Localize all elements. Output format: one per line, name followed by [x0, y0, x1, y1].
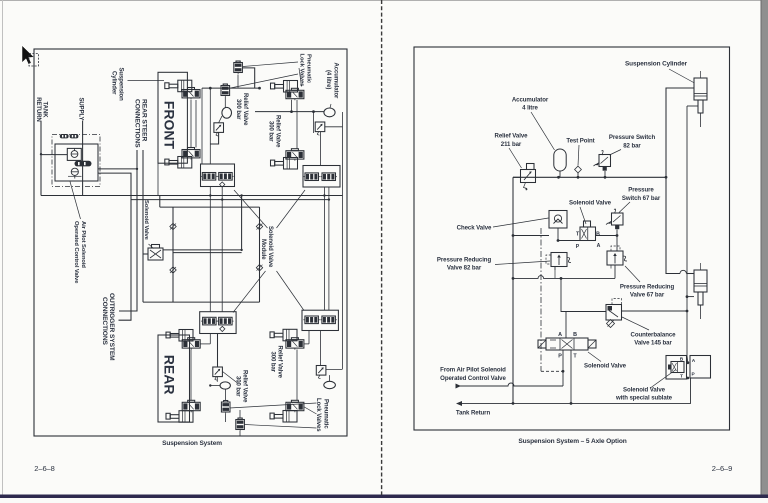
accumulator 4 litre symbol: [554, 149, 566, 171]
svg-text:SUPPLY: SUPPLY: [77, 98, 83, 121]
pneumatic lock valve rear-left-bottom: [182, 402, 200, 410]
leader prv67: [625, 266, 640, 282]
wire: counterbalance out to cylinder line: [622, 310, 688, 312]
wire: v210 front: [209, 88, 211, 164]
svg-text:FRONT: FRONT: [162, 101, 178, 150]
wire: rear-right lock link: [304, 343, 309, 345]
accumulator rear-right: [324, 381, 336, 388]
window top edge line: [0, 0, 768, 2]
subplate inner valve: [671, 362, 684, 373]
wire: v324 modules: [323, 187, 325, 311]
wire: rail to cylinder upper: [666, 88, 694, 177]
leader module label up-left: [234, 190, 268, 228]
wire: P line: [562, 350, 564, 386]
solenoid valve main symbol: [546, 338, 588, 350]
suspension cylinder upper: [694, 78, 707, 100]
svg-text:Switch 67 bar: Switch 67 bar: [622, 195, 661, 202]
REAR manifold box: [158, 335, 190, 422]
wire: control valve to bundle lower: [98, 173, 132, 320]
svg-text:Check Valve: Check Valve: [457, 225, 492, 232]
solenoid wing right: [588, 340, 596, 348]
pneumatic lock valve rear-left-top: [182, 340, 200, 348]
leader relief 211: [509, 148, 522, 168]
junction tank line: [40, 153, 42, 155]
leader ps82: [610, 150, 622, 156]
svg-text:A: A: [597, 243, 601, 249]
svg-text:2–6–9: 2–6–9: [712, 464, 732, 473]
svg-text:Relief Valve: Relief Valve: [275, 115, 281, 148]
leader counterbalance: [622, 317, 649, 330]
leader Pneumatic Lock Valves to FR lock valve: [299, 68, 302, 87]
wire: T line: [570, 350, 572, 403]
control valve pilot sub-box: [67, 148, 81, 160]
wire: FRONT box feed down to rail: [157, 163, 159, 195]
module fr spool A: [305, 173, 319, 181]
wire: front-left internal drop: [190, 100, 192, 148]
pneumatic lock valve front-right-bottom: [286, 151, 304, 159]
junction rail1/v241: [240, 194, 242, 196]
wire: solenoid valve to bundle: [143, 253, 149, 255]
svg-text:300 bar: 300 bar: [235, 376, 241, 397]
svg-text:2–6–8: 2–6–8: [34, 464, 54, 473]
wire: accumulator drop: [559, 171, 561, 177]
svg-text:Solenoid Valve: Solenoid Valve: [569, 200, 612, 207]
wire: prv82 drop: [554, 267, 556, 279]
wire: right vertical x687: [686, 106, 688, 356]
svg-text:TANK: TANK: [41, 102, 47, 119]
svg-text:Solenoid Valve: Solenoid Valve: [623, 387, 666, 394]
leader pneumatic lock valves bottom to rr lock: [304, 407, 317, 415]
svg-text:Valve 145 bar: Valve 145 bar: [634, 340, 672, 347]
wire: oval rear left feed: [210, 385, 220, 387]
suspension cylinder front-right-top: [271, 83, 275, 89]
pneumatic lock valve rear-right-top: [286, 340, 304, 348]
check diamond upper-left: [170, 223, 176, 229]
svg-text:CONNECTIONS: CONNECTIONS: [101, 297, 108, 346]
wire: rear-left internal: [190, 350, 192, 401]
wire: valve2 to accumulator: [224, 97, 226, 108]
solenoid valve with subplate: left box: [666, 356, 687, 380]
wire: y240 link: [558, 240, 580, 242]
svg-text:Accumulator: Accumulator: [332, 63, 338, 100]
module fl diamond: [220, 182, 225, 187]
wire: rr relief right link: [326, 369, 343, 371]
svg-text:Accumulator: Accumulator: [512, 97, 549, 104]
check diamond lower-right: [256, 265, 262, 271]
svg-text:Suspension: Suspension: [118, 68, 124, 102]
dashed pilot to P: [541, 370, 563, 372]
relief valve front-right symbol: [315, 122, 325, 132]
wire: rear-left lock link: [200, 343, 210, 345]
leader test point: [578, 145, 579, 166]
wire: rear-left module drop A: [209, 334, 211, 344]
wire: rc relief feed: [217, 334, 219, 368]
counterbalance check diamond: [607, 320, 615, 328]
wire: front-right relief to module: [320, 132, 322, 166]
svg-text:Tank Return: Tank Return: [456, 410, 491, 417]
wire: A-line to counterbalance: [566, 312, 606, 339]
wire: fr lock to rail: [291, 100, 293, 112]
leader module label down-left: [233, 271, 266, 313]
leader pneumatic lock valves bottom to valve A: [230, 403, 317, 408]
wire: rear steer stub B: [142, 150, 144, 302]
wire: vertical into subplate: [686, 356, 689, 363]
leader check valve: [493, 218, 549, 227]
svg-text:Solenoid Valve: Solenoid Valve: [584, 363, 627, 370]
leader from Solenoid Valve label: [149, 244, 154, 249]
svg-text:Pressure Reducing: Pressure Reducing: [437, 257, 492, 264]
svg-text:T: T: [680, 374, 683, 380]
svg-text:Counterbalance: Counterbalance: [631, 332, 677, 339]
svg-text:300 bar: 300 bar: [235, 99, 241, 120]
svg-text:Relief Valve: Relief Valve: [242, 93, 248, 126]
wire: TANK RETURN drop: [40, 121, 42, 196]
wire: main pressure rail: [513, 176, 666, 178]
wire: top valve stub to rail: [237, 75, 239, 89]
leader from Air Pilot label to control valve: [70, 182, 81, 220]
wire: oval to valve A: [225, 389, 227, 400]
wire: cylinder upper port to right vertical: [687, 105, 698, 107]
svg-text:From Air Pilot Solenoid: From Air Pilot Solenoid: [440, 367, 506, 374]
module rl spool B: [219, 317, 233, 325]
dash-dot pilot line: [540, 228, 542, 371]
wire: tank return into control valve: [41, 154, 67, 156]
accumulator front-left: [222, 107, 232, 118]
leader subplate: [651, 370, 676, 388]
pressure reducing valve 67 bar symbol: [607, 251, 623, 265]
wire: relief to oval rear: [216, 377, 218, 382]
window left edge line: [2, 0, 4, 498]
wire: v329 modules: [328, 187, 330, 311]
leader solenoid valve main: [588, 352, 601, 362]
control valve top connector block A: [60, 134, 69, 138]
svg-text:CONNECTIONS: CONNECTIONS: [134, 99, 141, 148]
right page: diagram frame: [414, 47, 730, 430]
test point symbol: [575, 166, 582, 173]
svg-text:Pneumatic: Pneumatic: [322, 399, 328, 429]
wire: stub rail-to-207: [159, 196, 161, 208]
wire: relief211 tee: [513, 176, 521, 178]
svg-text:Pressure Reducing: Pressure Reducing: [620, 284, 675, 291]
wire: y278 rail: [513, 276, 615, 279]
leader solenoid valve upper: [580, 207, 586, 224]
wire: main rail 2: [131, 199, 329, 201]
wire: ps67 drop: [616, 230, 618, 252]
wire: solenoid valve to rail y249: [163, 249, 242, 251]
check valve symbol: [549, 211, 567, 229]
wire: ps82 drop: [604, 171, 606, 177]
junction rails: [209, 194, 211, 196]
module fl spool B: [219, 173, 233, 181]
dashed bracket counterbalance: [612, 299, 622, 305]
wire: lower cylinder lower port: [687, 296, 694, 298]
wire: v222 modules: [221, 187, 223, 312]
leader to cylinder: [669, 69, 695, 83]
module rl diamond: [220, 326, 225, 331]
wire: front-center rail y88: [202, 87, 260, 89]
leader from Suspension Cylinder label to cylinder: [128, 80, 165, 82]
svg-text:300 bar: 300 bar: [268, 121, 274, 142]
leader Pneumatic Lock Valves to top valve: [243, 62, 298, 67]
svg-text:REAR: REAR: [162, 355, 178, 395]
relief valve front-left symbol: [214, 123, 224, 133]
module fl spool A: [202, 173, 216, 181]
svg-text:211 bar: 211 bar: [501, 141, 522, 148]
accumulator front-right: [324, 108, 335, 117]
wire: fr relief link to right edge: [325, 126, 343, 128]
wire: solenoid valve B to ps67: [596, 235, 618, 237]
pressure switch 67 bar symbol: [612, 213, 624, 225]
suspension cylinder front-right-bottom: [271, 160, 275, 166]
solenoid valve module rear-right box: [302, 310, 338, 330]
svg-text:Suspension System – 5 Axle Opt: Suspension System – 5 Axle Option: [518, 438, 626, 445]
pneumatic lock valve front-left-bottom: [182, 150, 200, 158]
pneumatic lock valve rear small B: [236, 420, 245, 430]
relief valve rear-right symbol: [316, 366, 326, 376]
svg-text:Valve 67 bar: Valve 67 bar: [630, 292, 665, 299]
wire: fr relief feed: [313, 112, 315, 133]
solenoid wing left: [538, 340, 546, 348]
svg-text:4 litre: 4 litre: [522, 105, 538, 112]
left page: small dashed connector box on frame edge: [29, 54, 39, 67]
svg-text:Solenoid Valve: Solenoid Valve: [267, 226, 273, 268]
wire: SUPPLY drop through valve: [82, 121, 84, 196]
pneumatic lock valve rear small A: [221, 402, 230, 412]
control valve solenoid blob: [75, 161, 92, 167]
pressure switch 82 bar symbol: [599, 155, 611, 167]
leader module label down-right: [277, 271, 305, 311]
suspension cylinder lower: [694, 270, 707, 292]
suspension cylinder front-left-bottom: [165, 159, 169, 165]
page divider dashed line: [381, 0, 383, 495]
leader pneumatic lock valves bottom to valve B: [245, 425, 317, 429]
wire: left main vertical: [512, 177, 514, 403]
pneumatic lock valve (second): [221, 86, 230, 96]
bottom navy status bar: [0, 495, 768, 499]
wire: rail y252: [173, 252, 242, 254]
wire: rail y207: [160, 206, 260, 208]
wire: front-left internal drop 2: [195, 100, 197, 148]
wire: fr lock bottom to rail: [296, 100, 298, 149]
wire: rear-right module drop A: [308, 331, 310, 344]
arrow from air pilot: [456, 384, 462, 389]
relief valve 211 bar symbol: [521, 170, 536, 183]
wire: main rail 1: [41, 195, 343, 197]
accumulator rear-center: [220, 382, 230, 389]
svg-text:Relief Valve: Relief Valve: [242, 370, 248, 403]
svg-text:B: B: [596, 232, 600, 238]
control valve upper poppet: [71, 151, 78, 158]
control valve lower poppet: [71, 168, 78, 175]
solenoid valve with subplate: right box: [690, 356, 711, 379]
svg-text:(4 litre): (4 litre): [325, 70, 331, 89]
pneumatic lock valve rear-right-bottom: [286, 402, 304, 410]
junction bundle: [136, 168, 138, 170]
svg-text:Solenoid Valve: Solenoid Valve: [143, 200, 149, 241]
wire: top valve link: [242, 68, 254, 88]
wire: prv67 drop: [614, 265, 616, 278]
svg-text:Suspension Cylinder: Suspension Cylinder: [625, 61, 688, 68]
svg-text:82 bar: 82 bar: [623, 143, 641, 150]
wire: valve B down: [239, 431, 241, 436]
dashed pilot bracket prv82: [546, 255, 551, 264]
check diamond lower-left: [170, 267, 176, 273]
right scrollbar band: [762, 0, 768, 498]
svg-text:Pressure: Pressure: [628, 187, 654, 194]
module rl spool A: [203, 317, 217, 325]
svg-text:Relief Valve: Relief Valve: [277, 346, 283, 379]
mouse cursor arrow: [22, 46, 34, 65]
wire: rear steer stub A: [119, 150, 137, 311]
wire: tank return line: [462, 378, 691, 403]
dashed pilot bracket prv67: [611, 246, 620, 251]
pneumatic lock valve front-left-top: [182, 90, 200, 98]
wire: rr relief to oval: [329, 375, 331, 381]
pneumatic lock valve front-right-top: [286, 90, 304, 98]
wire: control valve to bundle upper: [98, 168, 138, 170]
subplate junction dots: [686, 361, 689, 364]
svg-text:Valve 82 bar: Valve 82 bar: [447, 265, 482, 272]
suspension cylinder front-left-top: [165, 83, 169, 89]
module fr spool B: [322, 173, 336, 181]
wire: check valve stem: [557, 228, 559, 241]
svg-text:RETURN: RETURN: [35, 97, 41, 122]
wire: v241 upper: [241, 196, 243, 250]
solenoid valve module rear-left box: [200, 312, 236, 334]
wire: right-edge wire down: [342, 112, 344, 369]
wire: rear-right internal: [296, 350, 298, 401]
FRONT manifold box: [158, 72, 187, 163]
wire: accumulator to relief: [219, 116, 222, 123]
svg-text:Relief Valve: Relief Valve: [495, 133, 529, 140]
svg-text:Module: Module: [260, 239, 266, 260]
svg-text:A: A: [558, 332, 562, 338]
wire: v210 modules: [209, 187, 211, 312]
control valve top connector block B: [70, 134, 79, 138]
svg-text:B: B: [573, 332, 577, 338]
wire: center column with check diamonds: [172, 207, 174, 302]
suspension cylinder rear-left-top: [166, 332, 170, 338]
left page: diagram frame: [34, 49, 347, 436]
svg-text:Cylinder: Cylinder: [110, 71, 116, 95]
solenoid valve symbol center-left: [148, 248, 163, 260]
svg-text:P: P: [558, 354, 562, 360]
svg-text:300 bar: 300 bar: [270, 352, 276, 373]
wire: rail y302: [143, 301, 260, 303]
pressure reducing valve 82 bar symbol: [551, 253, 567, 267]
solenoid valve upper symbol: [584, 221, 591, 227]
leader accumulator: [531, 112, 555, 150]
wire: check valve feed: [513, 235, 549, 237]
svg-text:Pressure Switch: Pressure Switch: [609, 134, 656, 141]
leader module label up-right: [277, 190, 306, 228]
svg-text:Test Point: Test Point: [566, 138, 594, 145]
svg-text:Pneumatic: Pneumatic: [306, 54, 312, 84]
module rr spool A: [305, 316, 319, 324]
wire: x666 down to lower cylinder: [666, 177, 680, 273]
svg-text:Operated Control Valve: Operated Control Valve: [440, 375, 506, 382]
leader ps67: [619, 202, 630, 213]
suspension cylinder rear-right-bottom: [270, 413, 274, 419]
wire: front-right rail y111.6: [255, 111, 324, 113]
wire: center column right with diamonds: [259, 207, 261, 302]
wire: v202 front: [201, 88, 203, 164]
air pilot operated control valve: body: [55, 144, 98, 181]
svg-text:Air Pilot Solenoid: Air Pilot Solenoid: [80, 221, 86, 268]
leader relief rear-center label: [223, 372, 238, 384]
wire: valve A down: [225, 414, 227, 423]
air pilot operated control valve: dash-dot enclosure: [52, 135, 100, 187]
wire: from air pilot line: [460, 383, 563, 386]
svg-text:Suspension System: Suspension System: [162, 440, 222, 447]
suspension cylinder rear-right-top: [270, 332, 274, 338]
relief valve rear-center symbol: [213, 367, 223, 377]
svg-text:Operated Control Valve: Operated Control Valve: [73, 221, 79, 284]
leader accumulator label: [330, 104, 331, 108]
wire: prv82 out down: [561, 278, 566, 311]
solenoid valve module front-right box: [303, 166, 340, 188]
wire: valve B up: [239, 410, 241, 418]
wire: relief fl drop: [210, 132, 218, 144]
counterbalance valve symbol: [606, 305, 622, 321]
check diamond upper-right: [256, 223, 262, 229]
svg-text:with special sublate: with special sublate: [615, 395, 673, 402]
solenoid valve module front-left box: [201, 164, 235, 187]
suspension cylinder rear-left-bottom: [166, 413, 170, 419]
leader prv82: [495, 261, 550, 265]
pneumatic lock valve (top, on frame): [234, 63, 243, 73]
module rr spool B: [322, 316, 336, 324]
wire: rear-right relief feed: [320, 331, 322, 366]
arrow tank return: [456, 401, 462, 406]
leader Pneumatic Lock Valves to second valve: [231, 74, 299, 88]
